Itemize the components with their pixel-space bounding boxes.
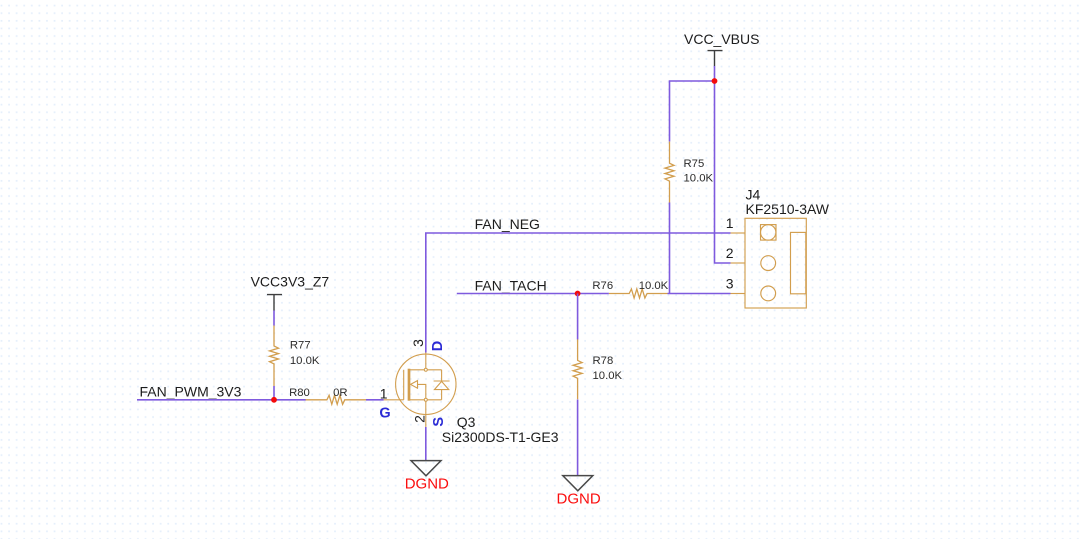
wire FAN_TACH down to R78 [577,294,579,340]
svg-text:FAN_NEG: FAN_NEG [475,216,540,232]
svg-text:1: 1 [726,215,734,231]
svg-text:R78: R78 [593,355,614,367]
svg-text:KF2510-3AW: KF2510-3AW [746,201,830,217]
svg-text:S: S [431,417,447,427]
svg-text:R80: R80 [289,387,310,399]
resistor R80 [306,395,367,404]
junction VCC_VBUS [712,78,718,84]
svg-text:10.0K: 10.0K [684,173,714,185]
svg-text:2: 2 [411,415,427,423]
connector J4 [731,218,807,308]
wire R80 to Q3 gate [366,399,384,401]
wire FAN_PWM_3V3 [137,399,306,401]
svg-text:10.0K: 10.0K [290,355,320,367]
wire branch left to R75 [670,81,715,142]
svg-text:DGND: DGND [557,490,601,507]
svg-text:DGND: DGND [405,476,449,493]
junction FAN_PWM [271,397,277,403]
svg-text:Q3: Q3 [457,414,476,430]
wire R75 bottom to FAN_TACH net [669,203,671,294]
svg-text:3: 3 [410,339,426,347]
transistor Q3 [384,353,456,428]
svg-text:10.0K: 10.0K [593,370,623,382]
wire VCC_VBUS vertical to pin2 row [715,66,731,263]
wire VCC3V3 to R77 [273,311,275,326]
svg-text:R77: R77 [290,340,311,352]
wire R77 to FAN_PWM net [273,386,275,400]
svg-text:G: G [379,405,390,421]
svg-text:VCC3V3_Z7: VCC3V3_Z7 [251,274,330,290]
svg-text:3: 3 [726,276,734,292]
svg-text:FAN_PWM_3V3: FAN_PWM_3V3 [140,383,242,399]
svg-text:10.0K: 10.0K [639,280,669,292]
junction FAN_TACH [575,291,581,297]
ground DGND (R78) [557,476,601,508]
svg-text:0R: 0R [333,387,347,399]
svg-text:Si2300DS-T1-GE3: Si2300DS-T1-GE3 [442,429,559,445]
wire FAN_TACH left [457,293,609,295]
power VCC3V3_Z7 [251,274,330,311]
svg-text:D: D [430,341,446,351]
resistor R77 [270,326,279,387]
wire Q3 source to ground [425,427,427,461]
power VCC_VBUS [684,31,759,66]
resistor R76 [609,289,668,298]
svg-text:R75: R75 [684,158,705,170]
svg-text:FAN_TACH: FAN_TACH [475,277,547,293]
wire FAN_NEG [426,233,731,353]
resistor R78 [573,339,582,399]
wire R76 to pin3 [668,293,731,295]
svg-text:1: 1 [380,386,388,402]
svg-text:R76: R76 [592,280,613,292]
svg-text:2: 2 [726,245,734,261]
ground DGND (Q3) [405,461,449,493]
svg-text:VCC_VBUS: VCC_VBUS [684,31,759,47]
resistor R75 [665,142,674,203]
wire R78 to ground [577,400,579,476]
